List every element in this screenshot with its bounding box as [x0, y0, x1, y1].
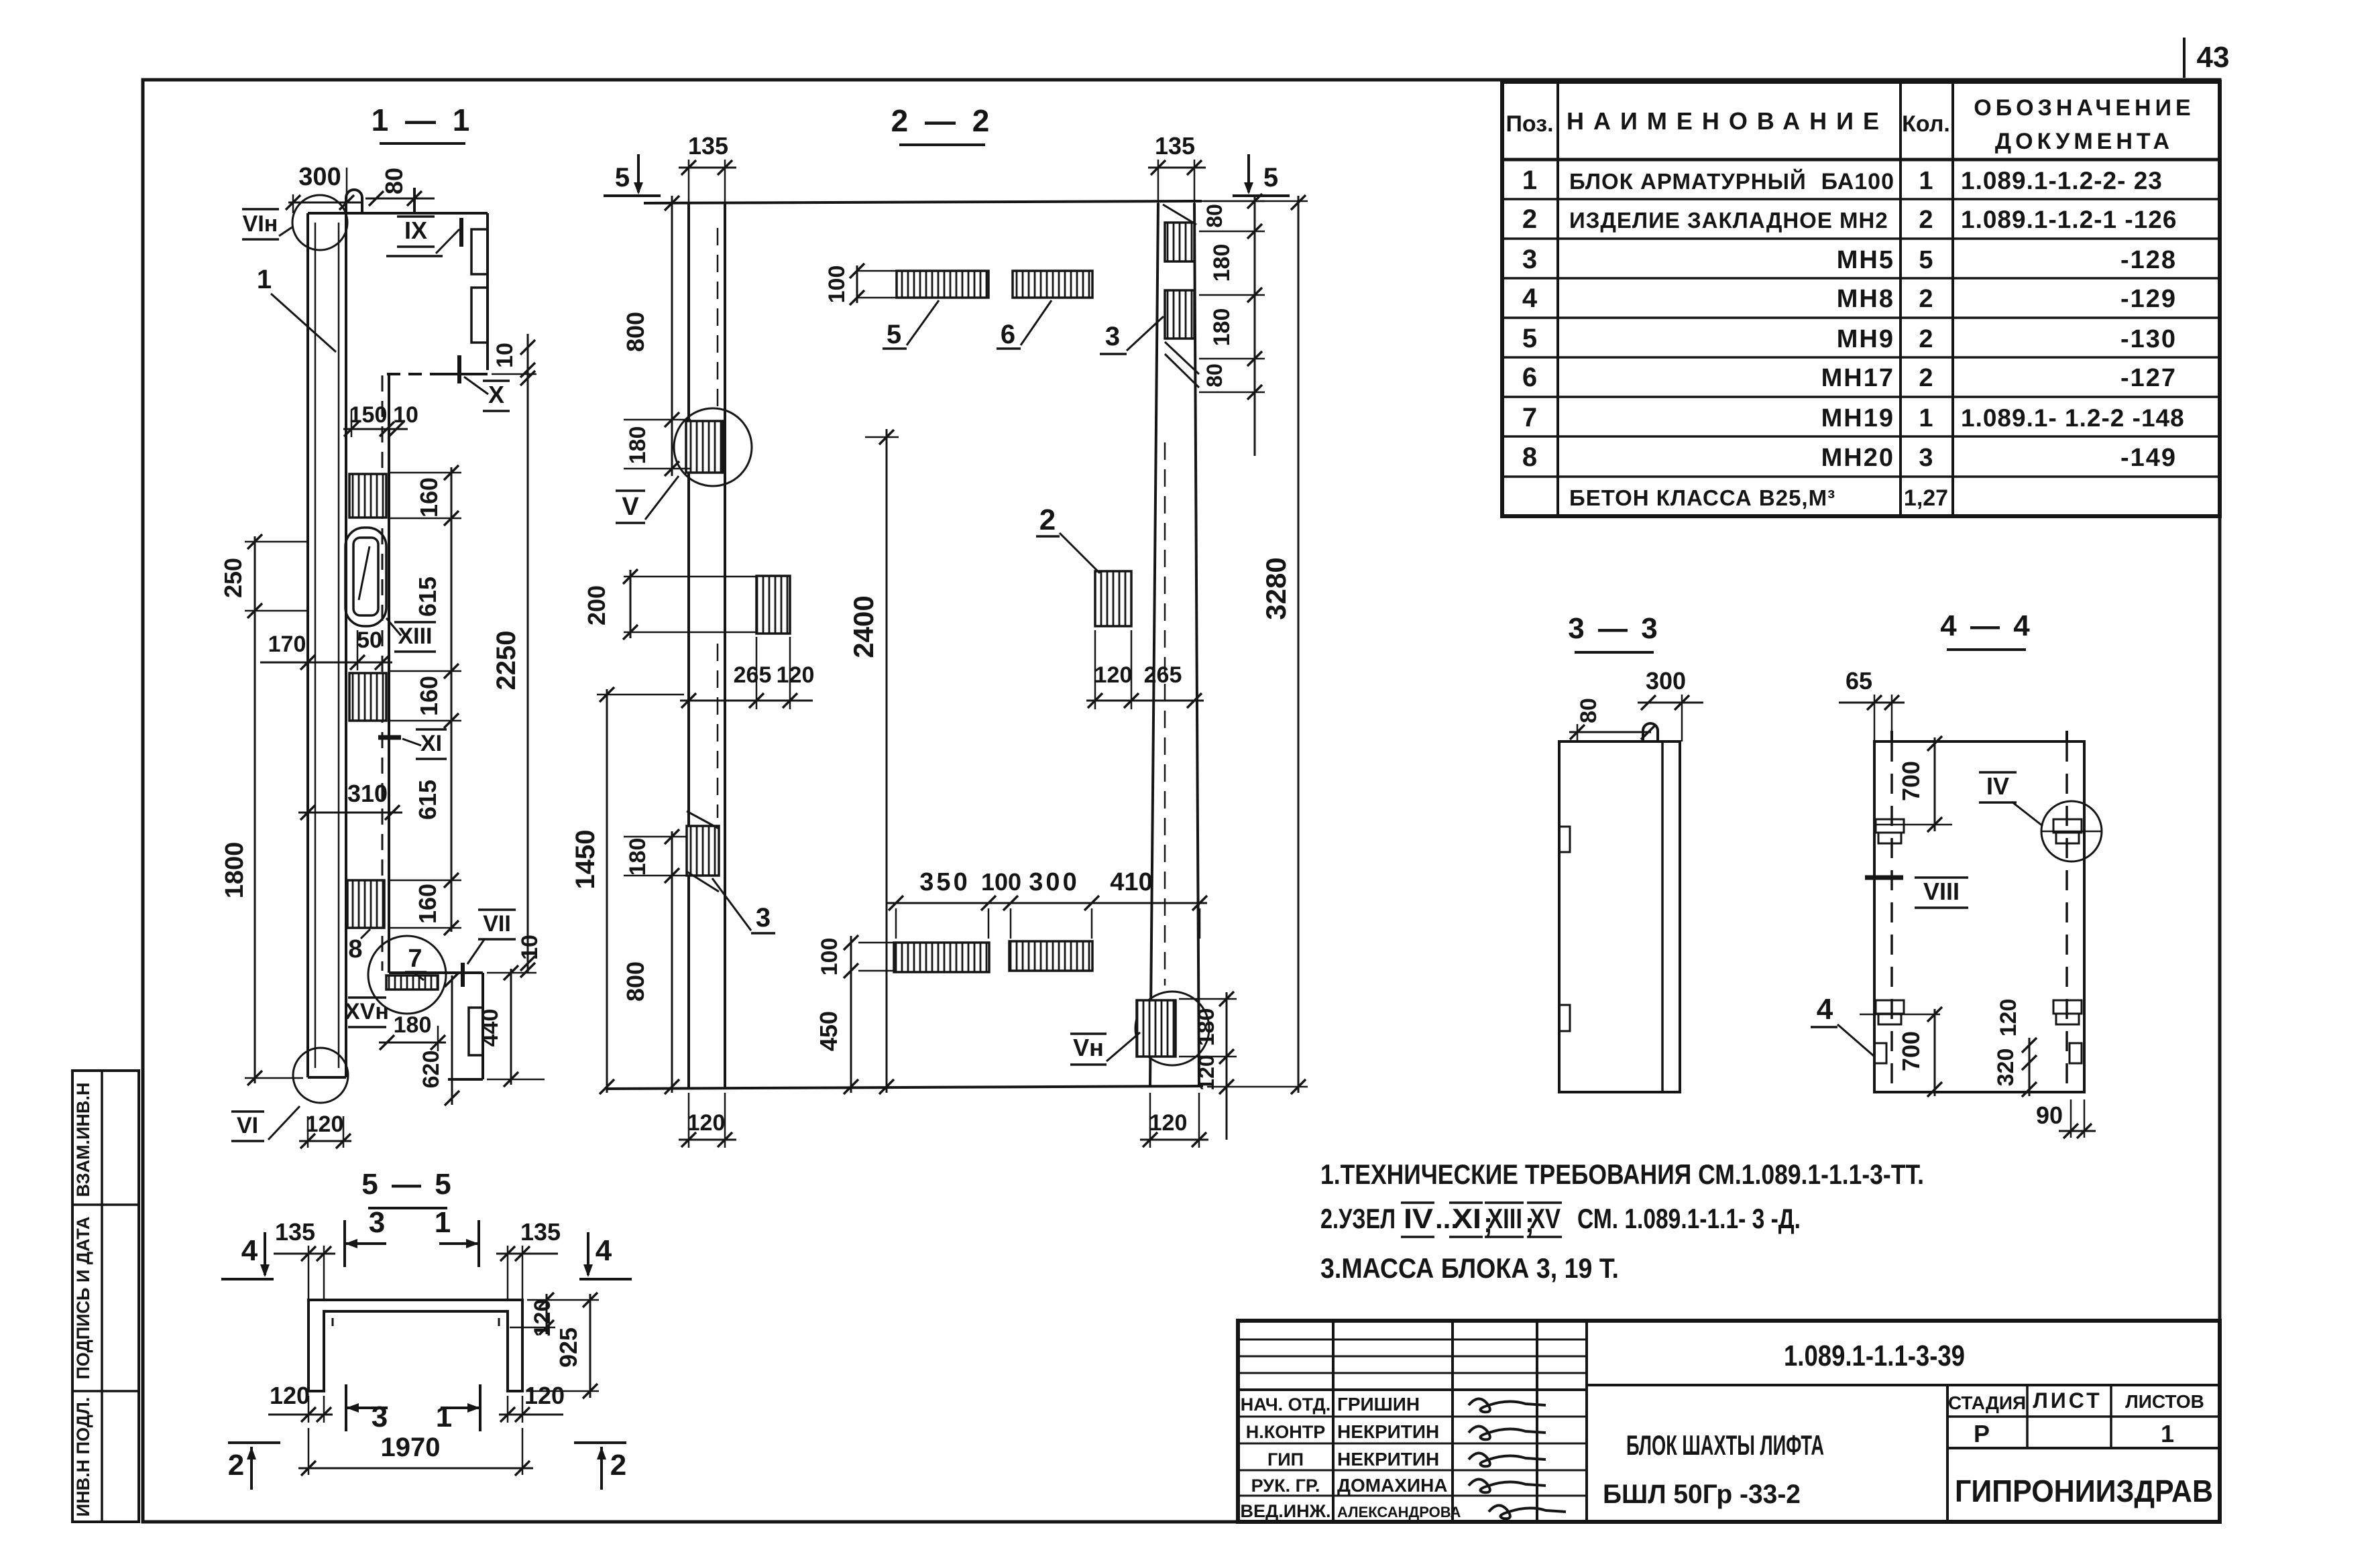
svg-text:80: 80	[1202, 363, 1227, 387]
oval embedded detail XIII in section 1-1	[345, 528, 386, 626]
dim 1970 (5-5 bottom)	[298, 1428, 533, 1476]
svg-text:135: 135	[275, 1218, 315, 1246]
svg-text:ЛИСТ: ЛИСТ	[2033, 1388, 2102, 1413]
svg-text:80: 80	[1576, 698, 1601, 723]
dims 120 320 (bottom of 4-4)	[1993, 999, 2037, 1097]
section mark 5 (top right)	[1233, 154, 1290, 196]
svg-text:80: 80	[380, 168, 408, 194]
svg-text:;: ;	[1525, 1207, 1534, 1238]
svg-text:800: 800	[622, 961, 649, 1002]
svg-text:1450: 1450	[571, 830, 600, 890]
svg-text:1 — 1: 1 — 1	[372, 103, 474, 137]
svg-text:3: 3	[369, 1206, 385, 1239]
svg-text:50: 50	[357, 628, 382, 653]
svg-text:300: 300	[1646, 667, 1686, 695]
label 2 with leader	[1036, 503, 1100, 573]
section 1-1 title	[372, 103, 474, 143]
dim 300 (top of 1-1)	[286, 163, 362, 213]
svg-text:1: 1	[435, 1206, 451, 1239]
svg-text:410: 410	[1110, 868, 1152, 896]
svg-text:450: 450	[815, 1011, 842, 1051]
svg-text:IX: IX	[404, 217, 427, 244]
dim 170 / 50 (mid 1-1)	[260, 628, 392, 670]
svg-text:120: 120	[1094, 662, 1133, 688]
svg-text:180: 180	[625, 426, 650, 465]
svg-text:310: 310	[347, 780, 388, 807]
svg-text:615: 615	[414, 780, 441, 820]
dim 10 (upper right of 1-1)	[492, 334, 535, 377]
svg-text:5 — 5: 5 — 5	[361, 1168, 453, 1201]
svg-text:135: 135	[1155, 132, 1195, 160]
svg-text:V: V	[622, 493, 639, 521]
svg-text:180: 180	[1209, 308, 1235, 347]
svg-text:МН8: МН8	[1837, 285, 1894, 313]
svg-text:135: 135	[688, 132, 728, 160]
svg-text:160: 160	[414, 884, 441, 924]
label 8 with leader	[348, 929, 370, 963]
embedded plates bottom middle of 2-2	[894, 941, 1092, 972]
svg-text:МН17: МН17	[1821, 364, 1894, 392]
svg-text:160: 160	[415, 676, 443, 716]
label XIII with leader	[386, 618, 436, 652]
dim 100 for plates 5,6	[824, 263, 899, 305]
svg-text:90: 90	[2036, 1101, 2063, 1129]
dims 350 100 300 410 (bottom middle 2-2)	[887, 868, 1207, 939]
svg-text:4: 4	[596, 1234, 612, 1267]
svg-text:1: 1	[2161, 1420, 2174, 1447]
dim 90 (bottom of 4-4)	[2036, 1099, 2096, 1138]
dim 700 (top of 4-4)	[1874, 736, 1952, 832]
section 2-2 title	[891, 103, 994, 145]
svg-text:65: 65	[1846, 667, 1872, 695]
svg-text:РУК. ГР.: РУК. ГР.	[1251, 1476, 1320, 1496]
svg-text:350: 350	[919, 868, 970, 896]
dims 80 180 180 80 (right of 2-2 top)	[1199, 194, 1265, 456]
svg-text:НЕКРИТИН: НЕКРИТИН	[1337, 1421, 1439, 1442]
label IX with leader	[386, 217, 461, 256]
svg-text:300: 300	[298, 163, 341, 191]
svg-text:...: ...	[1435, 1203, 1459, 1234]
dim 120 (bottom of 1-1)	[299, 1112, 351, 1148]
svg-text:180: 180	[1194, 1008, 1219, 1047]
dim 120 (5-5 bottom left)	[268, 1382, 333, 1423]
svg-text:3: 3	[1919, 444, 1933, 472]
svg-text:120: 120	[1996, 999, 2021, 1037]
title block	[1238, 1321, 2220, 1522]
embedded plate on left wall bottom (label 3)	[687, 811, 719, 892]
dim 300 (3-3)	[1638, 667, 1703, 741]
svg-text:1.089.1-1.2-2- 23: 1.089.1-1.2-2- 23	[1961, 167, 2163, 194]
section 2-2 bottom edge	[607, 1086, 1203, 1089]
svg-text:2250: 2250	[492, 631, 521, 691]
label VIII with tick	[1865, 878, 1968, 908]
svg-text:320: 320	[1993, 1049, 2019, 1087]
svg-text:265: 265	[734, 662, 772, 688]
svg-text:6: 6	[1522, 363, 1537, 392]
svg-text:VIн: VIн	[243, 211, 278, 237]
svg-text:120: 120	[777, 662, 815, 688]
svg-text:ВЗАМ.ИНВ.Н: ВЗАМ.ИНВ.Н	[73, 1083, 93, 1197]
dim 150 10 (in 1-1)	[343, 402, 418, 437]
section 4-4 body	[1874, 731, 2084, 1092]
section marks 4 (5-5 top)	[221, 1232, 274, 1279]
svg-text:БА100: БА100	[1821, 169, 1894, 194]
svg-text:2: 2	[1039, 503, 1056, 536]
dim 120 (5-5 right, rotated)	[510, 1293, 555, 1337]
label VIн	[242, 209, 293, 239]
svg-text:ОБОЗНАЧЕНИЕ: ОБОЗНАЧЕНИЕ	[1974, 95, 2194, 121]
embedded plates 5 and 6 (top middle of 2-2)	[897, 271, 1092, 298]
svg-text:СМ. 1.089.1-1.1- 3 -Д.: СМ. 1.089.1-1.1- 3 -Д.	[1577, 1203, 1801, 1234]
svg-text:3 — 3: 3 — 3	[1568, 612, 1660, 645]
svg-text:ДОМАХИНА: ДОМАХИНА	[1337, 1475, 1448, 1496]
svg-text:2.УЗЕЛ: 2.УЗЕЛ	[1320, 1203, 1396, 1234]
svg-text:5: 5	[1522, 324, 1537, 353]
svg-text:1,27: 1,27	[1904, 485, 1948, 511]
dim 2250 (right of 1-1)	[487, 371, 536, 977]
dim 180 620 (bottom of 1-1)	[379, 972, 459, 1106]
embedded plate MH (upper) in section 1-1	[349, 474, 386, 518]
dim chain 160/615/160/615/160 (right of 1-1)	[389, 465, 461, 935]
svg-text:;: ;	[1483, 1207, 1493, 1238]
section 1-1 wall outline	[308, 213, 488, 1077]
section 2-2 left wall	[689, 203, 725, 1089]
svg-text:IV: IV	[1986, 772, 2009, 800]
section marks 2 (5-5 bottom)	[228, 1443, 280, 1490]
svg-text:БШЛ 50Гр -33-2: БШЛ 50Гр -33-2	[1603, 1480, 1801, 1509]
svg-text:ДОКУМЕНТА: ДОКУМЕНТА	[1995, 129, 2173, 154]
svg-text:1.ТЕХНИЧЕСКИЕ ТРЕБОВАНИЯ СМ.1: 1.ТЕХНИЧЕСКИЕ ТРЕБОВАНИЯ СМ.1.089.1-1.1-…	[1320, 1158, 1924, 1190]
svg-text:МН5: МН5	[1837, 246, 1894, 274]
dim 310 (mid 1-1)	[298, 780, 402, 820]
svg-text:3: 3	[756, 903, 771, 933]
svg-text:4: 4	[241, 1234, 258, 1267]
svg-text:XVн: XVн	[345, 999, 389, 1024]
svg-text:100: 100	[824, 265, 850, 304]
svg-text:Поз.: Поз.	[1506, 111, 1553, 137]
svg-text:2: 2	[1919, 325, 1933, 353]
svg-text:180: 180	[1209, 244, 1235, 282]
svg-text:120: 120	[687, 1110, 726, 1136]
svg-text:ГИП: ГИП	[1267, 1449, 1304, 1470]
svg-text:10: 10	[492, 343, 518, 368]
technical notes	[1320, 1158, 1924, 1284]
svg-text:80: 80	[1202, 204, 1227, 228]
svg-text:1970: 1970	[381, 1433, 441, 1462]
label 3 with leader (2-2 top)	[1100, 316, 1164, 354]
dim 135 (top right wall 2-2)	[1148, 132, 1206, 203]
label 6 with leader	[997, 300, 1052, 349]
svg-text:VI: VI	[237, 1113, 258, 1138]
section 5-5 channel profile	[308, 1300, 522, 1391]
svg-text:6: 6	[1001, 320, 1015, 349]
svg-text:1: 1	[1919, 167, 1933, 195]
dims 100 450 (left of bottom plates)	[815, 935, 895, 1094]
svg-text:СТАДИЯ: СТАДИЯ	[1948, 1392, 2026, 1413]
svg-text:-149: -149	[2120, 444, 2177, 472]
svg-text:925: 925	[555, 1327, 582, 1368]
label 5 with leader	[883, 300, 939, 349]
lifting loop on section 1-1	[346, 190, 362, 213]
svg-text:VIII: VIII	[1923, 878, 1960, 905]
section 1-1 top slab with notches	[387, 213, 488, 973]
svg-text:2: 2	[1522, 204, 1537, 234]
dim 135 (5-5 top left)	[274, 1218, 335, 1300]
dim 65 (top of 4-4)	[1839, 667, 1905, 741]
svg-text:1.089.1-1.2-1 -126: 1.089.1-1.2-1 -126	[1961, 206, 2177, 233]
svg-text:5: 5	[1263, 163, 1278, 192]
svg-text:700: 700	[1897, 761, 1925, 801]
dim 120 (bottom left wall 2-2)	[679, 1093, 736, 1148]
svg-text:ВЕД.ИНЖ.: ВЕД.ИНЖ.	[1240, 1501, 1330, 1521]
svg-text:615: 615	[414, 577, 441, 617]
svg-text:Р: Р	[1974, 1420, 1990, 1447]
svg-text:1.089.1-1.1-3-39: 1.089.1-1.1-3-39	[1784, 1339, 1965, 1372]
dim 3280 (right of 2-2)	[1204, 195, 1308, 1094]
svg-text:4: 4	[1817, 993, 1833, 1026]
svg-text:170: 170	[268, 632, 306, 657]
embedded plates on right wall top (label 3)	[1163, 204, 1199, 387]
svg-text:7: 7	[1522, 403, 1537, 432]
svg-text:МН9: МН9	[1837, 325, 1894, 353]
dim 135 (5-5 top right)	[496, 1218, 561, 1300]
svg-text:120: 120	[306, 1112, 344, 1137]
section 3-3 title	[1568, 612, 1660, 652]
svg-text:XI: XI	[420, 731, 442, 756]
svg-text:800: 800	[622, 312, 649, 352]
svg-text:4 — 4: 4 — 4	[1940, 609, 2032, 642]
svg-text:1: 1	[1522, 166, 1537, 195]
svg-text:120: 120	[270, 1382, 310, 1409]
svg-text:135: 135	[520, 1218, 561, 1246]
label XVн	[345, 998, 389, 1027]
svg-text:ИЗДЕЛИЕ ЗАКЛАДНОЕ МН2: ИЗДЕЛИЕ ЗАКЛАДНОЕ МН2	[1569, 208, 1888, 233]
svg-text:Кол.: Кол.	[1902, 111, 1950, 137]
svg-text:2: 2	[1919, 364, 1933, 392]
label Vн with leader	[1070, 1032, 1140, 1065]
embedded plate MH (lower, label 8) in section 1-1	[347, 880, 384, 928]
node circle V on left wall	[674, 408, 752, 486]
svg-text:100: 100	[817, 938, 842, 976]
dims 180 120 (right of Vн)	[1179, 992, 1237, 1140]
svg-text:1800: 1800	[221, 842, 249, 899]
svg-text:10: 10	[517, 935, 543, 960]
dim 925 (5-5 right, rotated)	[527, 1293, 599, 1398]
svg-text:43: 43	[2197, 41, 2230, 74]
svg-text:БЕТОН КЛАССА В25,М³: БЕТОН КЛАССА В25,М³	[1569, 485, 1835, 510]
svg-text:620: 620	[418, 1051, 444, 1089]
svg-text:2400: 2400	[848, 595, 879, 658]
svg-text:100: 100	[981, 868, 1021, 896]
label VI	[231, 1106, 300, 1141]
svg-text:МН19: МН19	[1821, 404, 1894, 432]
section 2-2 top edge	[644, 201, 1202, 203]
svg-text:VII: VII	[483, 911, 511, 937]
svg-text:265: 265	[1144, 662, 1182, 688]
svg-text:180: 180	[394, 1012, 432, 1038]
svg-text:-128: -128	[2120, 246, 2177, 274]
svg-text:XIII: XIII	[398, 623, 432, 649]
svg-text:3: 3	[1522, 245, 1537, 274]
svg-text:1: 1	[1919, 404, 1933, 432]
svg-text:300: 300	[1029, 868, 1079, 896]
svg-text:120: 120	[1194, 1055, 1219, 1090]
svg-text:Vн: Vн	[1073, 1034, 1104, 1061]
dim 2400 (center of 2-2)	[848, 429, 899, 1094]
svg-text:-129: -129	[2120, 285, 2177, 313]
svg-text:IV: IV	[1404, 1203, 1433, 1234]
svg-text:НАЧ. ОТД.: НАЧ. ОТД.	[1241, 1394, 1330, 1415]
dim 80 (top of 1-1)	[365, 168, 435, 213]
label XI with tick	[378, 729, 447, 759]
svg-text:-127: -127	[2120, 364, 2177, 392]
svg-text:ИНВ.Н ПОДЛ.: ИНВ.Н ПОДЛ.	[73, 1397, 93, 1517]
dim 200 (left of 2-2 middle)	[583, 569, 758, 640]
dim 120 (5-5 bottom right)	[499, 1382, 565, 1423]
svg-text:БЛОК ШАХТЫ ЛИФТА: БЛОК ШАХТЫ ЛИФТА	[1626, 1429, 1824, 1461]
svg-text:4: 4	[1522, 284, 1538, 313]
dims 800 180 (left of 2-2 top)	[622, 196, 694, 476]
svg-text:1: 1	[257, 265, 272, 294]
svg-text:Н.КОНТР: Н.КОНТР	[1246, 1422, 1325, 1442]
svg-text:440: 440	[477, 1009, 503, 1047]
svg-text:-130: -130	[2120, 325, 2177, 353]
label V with leader	[616, 476, 679, 523]
svg-text:5: 5	[615, 163, 630, 192]
svg-text:700: 700	[1897, 1031, 1925, 1071]
svg-text:120: 120	[530, 1299, 555, 1337]
svg-text:ГРИШИН: ГРИШИН	[1337, 1394, 1420, 1415]
dims 265 120 (left middle 2-2)	[680, 637, 814, 709]
section marks 3 and 1 (5-5 top)	[345, 1206, 386, 1267]
svg-text:200: 200	[583, 585, 610, 625]
dim 700 (bottom of 4-4)	[1860, 1007, 1942, 1097]
section mark 5 (top left)	[604, 154, 661, 196]
svg-text:2: 2	[1919, 285, 1933, 313]
left margin stamp boxes	[72, 1071, 139, 1522]
label 4 with leader	[1811, 993, 1874, 1056]
svg-text:150: 150	[349, 402, 388, 428]
dim 135 (top left wall 2-2)	[679, 132, 736, 203]
page number 43	[2184, 38, 2229, 78]
svg-text:3: 3	[1105, 322, 1120, 351]
svg-text:2: 2	[1919, 206, 1933, 234]
svg-text:8: 8	[1522, 442, 1537, 472]
svg-text:2: 2	[228, 1449, 244, 1482]
svg-text:5: 5	[1919, 246, 1933, 274]
svg-text:180: 180	[625, 838, 650, 876]
node circle Vн (bottom right wall)	[1135, 992, 1209, 1065]
svg-text:1: 1	[436, 1400, 452, 1433]
node circle XVн with label 7	[368, 936, 446, 1014]
node circle IV on 4-4	[2041, 801, 2102, 861]
embedded strip plate 7 at bottom step of section 1-1	[386, 975, 438, 990]
svg-text:АЛЕКСАНДРОВА: АЛЕКСАНДРОВА	[1337, 1504, 1461, 1520]
section 1-1 dashed centerline	[382, 375, 384, 971]
svg-text:ГИПРОНИИЗДРАВ: ГИПРОНИИЗДРАВ	[1955, 1474, 2213, 1508]
section 2-2 right wall	[1150, 203, 1199, 1086]
svg-text:250: 250	[219, 558, 247, 598]
dims 120 265 (right middle 2-2)	[1086, 630, 1204, 709]
svg-text:160: 160	[415, 477, 443, 518]
leader label 1	[257, 265, 336, 352]
dims 1450 180 800 (left of 2-2 bottom)	[571, 687, 691, 1094]
section 1-1 bottom slab with notch	[389, 973, 483, 1079]
svg-text:ПОДПИСЬ И ДАТА: ПОДПИСЬ И ДАТА	[73, 1216, 93, 1379]
svg-text:НАИМЕНОВАНИЕ: НАИМЕНОВАНИЕ	[1567, 107, 1888, 135]
svg-text:1.089.1- 1.2-2 -148: 1.089.1- 1.2-2 -148	[1961, 404, 2185, 432]
dim 440 10 (bottom right of 1-1)	[477, 935, 545, 1087]
dim 80 (3-3)	[1569, 698, 1656, 741]
label X with leader	[459, 355, 510, 411]
svg-text:НЕКРИТИН: НЕКРИТИН	[1337, 1449, 1439, 1470]
svg-text:X: X	[488, 381, 504, 408]
section 4-4 title	[1940, 609, 2032, 650]
section marks 3 and 1 (5-5 bottom)	[346, 1384, 388, 1433]
svg-text:МН20: МН20	[1821, 444, 1894, 472]
label IV with leader	[1979, 772, 2043, 826]
svg-text:120: 120	[1149, 1110, 1188, 1136]
svg-text:3.МАССА БЛОКА 3, 19 Т.: 3.МАССА БЛОКА 3, 19 Т.	[1320, 1252, 1619, 1284]
node circle VI (bottom of section 1-1)	[293, 1048, 348, 1103]
svg-text:8: 8	[348, 935, 362, 963]
svg-text:БЛОК АРМАТУРНЫЙ: БЛОК АРМАТУРНЫЙ	[1569, 168, 1807, 194]
svg-text:5: 5	[887, 320, 901, 349]
svg-text:ЛИСТОВ: ЛИСТОВ	[2125, 1391, 2204, 1412]
svg-text:120: 120	[524, 1382, 565, 1409]
dim 250 / 1800 (left of 1-1)	[219, 534, 308, 1085]
svg-text:3280: 3280	[1260, 557, 1292, 619]
embedded plate 2 (right middle of 2-2)	[1095, 571, 1131, 626]
section 3-3 body	[1559, 723, 1680, 1092]
svg-text:2: 2	[610, 1449, 626, 1482]
svg-text:3: 3	[372, 1400, 388, 1433]
node circle VIн (top of section 1-1)	[292, 195, 347, 250]
label 3 with leader (2-2 bottom)	[712, 878, 775, 933]
svg-text:10: 10	[393, 402, 418, 428]
label VII with leader and tick	[463, 910, 516, 987]
svg-text:2 — 2: 2 — 2	[891, 103, 994, 138]
embedded plate left-middle of 2-2	[756, 576, 790, 634]
dim 120 (bottom right wall 2-2)	[1140, 1093, 1208, 1148]
svg-text:7: 7	[408, 945, 422, 973]
parts specification table	[1502, 82, 2220, 516]
section 5-5 title	[361, 1168, 453, 1208]
embedded plate MH (middle) in section 1-1	[349, 673, 386, 721]
